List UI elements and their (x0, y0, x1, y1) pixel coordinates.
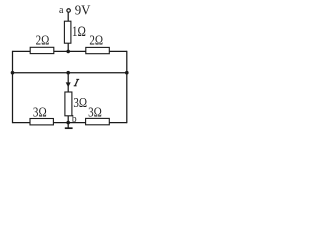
junction node middle wire centre (66, 71, 70, 75)
resistor 3ohm bottom-right box (86, 118, 110, 124)
ground bar (65, 127, 73, 129)
wire middle branch vertical (67, 73, 69, 123)
wire right vertical edge (126, 51, 128, 123)
wire top horizontal (13, 50, 127, 52)
wire middle horizontal (13, 72, 127, 74)
ground stub below node b (67, 123, 69, 128)
wire bottom horizontal (13, 122, 127, 124)
svg-text:b: b (72, 114, 77, 125)
resistor 2ohm left box (30, 47, 54, 53)
resistor 1ohm vertical box (64, 21, 71, 43)
junction node middle wire right (125, 71, 129, 75)
svg-text:1Ω: 1Ω (72, 23, 86, 40)
svg-text:3Ω: 3Ω (73, 95, 87, 111)
svg-text:2Ω: 2Ω (89, 32, 103, 48)
svg-text:3Ω: 3Ω (33, 104, 47, 120)
junction node b on bottom wire (66, 121, 70, 125)
junction node middle wire left (11, 71, 15, 75)
svg-text:a: a (59, 5, 64, 16)
resistor 3ohm middle vertical box (65, 92, 72, 116)
current arrow I head (66, 82, 71, 87)
svg-text:9V: 9V (75, 2, 91, 18)
wire left vertical edge (12, 51, 14, 123)
svg-text:3Ω: 3Ω (88, 104, 102, 120)
resistor 2ohm right box (86, 47, 110, 53)
wire from terminal a down to top node (67, 12, 69, 51)
terminal a circle (67, 9, 71, 13)
label I current (74, 79, 80, 85)
svg-text:2Ω: 2Ω (36, 32, 50, 48)
junction node on top wire (66, 50, 70, 54)
resistor 3ohm bottom-left box (30, 119, 53, 125)
